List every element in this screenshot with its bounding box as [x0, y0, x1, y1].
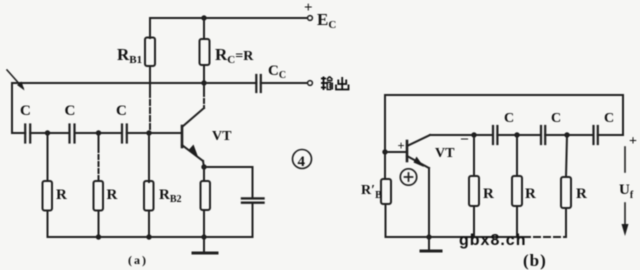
- svg-text:R: R: [525, 186, 536, 202]
- resistor R1 (b): [469, 176, 479, 206]
- terminal: +Ec: [308, 16, 313, 21]
- wire: RC bottom to output node: [203, 65, 205, 83]
- emitter diagonal: [182, 145, 203, 161]
- transistor VT (a): base bar: [181, 126, 184, 147]
- capacitor C2 (b): [540, 126, 542, 144]
- glyph 出: [336, 77, 349, 90]
- label 输出 (drawn glyphs): [321, 77, 349, 91]
- node: base node b: [382, 149, 387, 154]
- wire: RB2 column: [148, 133, 150, 182]
- label circled 4: [293, 150, 312, 169]
- capacitor C3 (b): [592, 126, 594, 144]
- svg-text:RC=R: RC=R: [215, 45, 254, 66]
- svg-text:R: R: [107, 187, 118, 203]
- resistor R2 (a): [94, 181, 104, 211]
- capacitor C2 (a): [68, 125, 70, 143]
- arrow: input slash: [7, 70, 23, 88]
- capacitor C1 (b): [492, 126, 494, 144]
- wire: feedback line (output to phase network): [12, 83, 204, 133]
- svg-text:+: +: [398, 139, 405, 153]
- wire: bottom rail (a): [48, 236, 253, 238]
- wire: output line with Cc: [204, 82, 256, 84]
- wire: R1 column: [47, 133, 49, 181]
- resistor R3 (b): [561, 177, 571, 208]
- wire: base lead (b): [385, 151, 407, 153]
- glyph 输: [321, 77, 333, 91]
- resistor RC: [200, 39, 210, 65]
- svg-text:R: R: [483, 186, 494, 202]
- svg-text:gbx8.ch: gbx8.ch: [459, 232, 526, 249]
- wire: Rb2 column: [516, 135, 518, 176]
- capacitor C3 (a): [121, 125, 123, 143]
- wire: RB1 bottom to base node (part dashed): [149, 66, 151, 92]
- wire: Rb3 column: [566, 135, 567, 177]
- collector diagonal (b): [407, 135, 430, 146]
- wire: phase-shift chain: [12, 132, 25, 134]
- ground (a): [203, 237, 205, 252]
- node 2: [96, 130, 101, 135]
- svg-text:C: C: [116, 103, 127, 119]
- resistor R'B: [381, 179, 391, 204]
- node: collector supply junction: [201, 15, 206, 20]
- svg-text:C: C: [20, 103, 31, 119]
- svg-text:VT: VT: [435, 146, 455, 161]
- terminal: output: [308, 81, 313, 86]
- wire: bypass branch: [204, 167, 253, 198]
- arrow: Uf output: [624, 147, 626, 172]
- node 3 (base node): [146, 130, 151, 135]
- wire: Rb1 column: [473, 135, 475, 176]
- capacitor Ce (bypass): [242, 197, 264, 199]
- svg-text:(b): (b): [523, 251, 547, 270]
- svg-text:R: R: [576, 186, 587, 202]
- node: collector output: [201, 80, 206, 85]
- resistor RB2: [144, 181, 154, 211]
- emitter diagonal (b): [407, 156, 429, 168]
- resistor R2 (b): [512, 176, 522, 206]
- node b3: [564, 132, 569, 137]
- svg-text:R: R: [56, 187, 67, 203]
- svg-text:+: +: [629, 134, 637, 149]
- wire: collector diagonal: [182, 108, 204, 127]
- svg-text:C: C: [504, 111, 514, 126]
- source circle +: [400, 169, 416, 185]
- wire: collector chain (b): [430, 134, 493, 136]
- svg-text:C: C: [604, 111, 614, 126]
- wire: R2 column (part dashed): [98, 133, 100, 148]
- wire: top supply rail: [150, 17, 307, 19]
- wire: left column top: [384, 95, 386, 179]
- svg-text:–: –: [460, 131, 469, 146]
- node b2: [514, 132, 519, 137]
- svg-text:C: C: [551, 111, 561, 126]
- svg-text:C: C: [65, 103, 76, 119]
- svg-text:+: +: [304, 0, 313, 16]
- resistor Re: [203, 167, 205, 181]
- wire: collector node down to transistor (part dashed): [203, 83, 205, 92]
- capacitor C1 (a): [24, 125, 26, 143]
- wire: bottom rail (b): [386, 236, 525, 238]
- transistor VT (b): base bar: [406, 141, 409, 161]
- wire: RB1 column top: [149, 18, 151, 38]
- svg-text:(a): (a): [128, 253, 148, 267]
- node 1: [45, 130, 50, 135]
- node b1: [471, 132, 476, 137]
- resistor RB1: [145, 38, 155, 67]
- node: emitter: [201, 164, 206, 169]
- capacitor Cc: [255, 75, 257, 92]
- ground (b): [428, 237, 430, 250]
- wire: RC column top: [203, 18, 205, 39]
- svg-text:4: 4: [298, 154, 306, 170]
- wire: top feedback rail: [385, 95, 623, 135]
- svg-text:VT: VT: [212, 129, 232, 144]
- resistor R1 (a): [43, 181, 53, 211]
